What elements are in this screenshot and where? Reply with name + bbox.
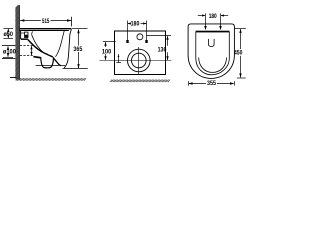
dim 355 (188, 81, 234, 85)
svg-text:355: 355 (207, 80, 216, 87)
dim 365 (63, 29, 88, 69)
inlet box (21, 32, 28, 37)
extension lines to bolts (128, 26, 147, 41)
outlet pipe thick (33, 57, 40, 58)
tank frame rect (115, 31, 166, 75)
dim 180 (middle) (128, 21, 147, 27)
bowl underside (back slope, thick) (28, 40, 53, 57)
bowl rim inner arc (199, 58, 227, 73)
cistern top thick bar (196, 31, 230, 33)
front profile inner (55, 31, 64, 57)
centerline mark left of drain (116, 54, 121, 63)
svg-text:180: 180 (131, 21, 140, 28)
dim o100 arrows (7, 46, 9, 57)
wall hatch (15, 4, 19, 83)
svg-text:180: 180 (209, 13, 217, 20)
ceramic back edge (20, 31, 22, 40)
bolt slot left (126, 40, 128, 43)
drain centerlines (100, 47, 172, 75)
trap U dip (41, 57, 54, 68)
seat slab (thick top) (20, 28, 72, 31)
bolt slot right (145, 40, 147, 43)
floor line left (10, 77, 17, 79)
o100 vertical arrows at pipe (30, 46, 32, 56)
svg-text:ø100: ø100 (3, 49, 16, 56)
dim 180 (top view) (198, 13, 228, 30)
bowl flat bottom (36, 64, 65, 66)
inner bowl back wall with hook (32, 32, 48, 55)
back bottom thick bar (21, 38, 28, 40)
svg-text:ø50: ø50 (3, 31, 13, 38)
dim o50 (4, 28, 14, 38)
svg-text:515: 515 (42, 18, 50, 25)
front profile outer (64, 29, 72, 68)
floor hatch middle (110, 80, 170, 83)
svg-text:450: 450 (234, 49, 243, 56)
dim 100 (103, 42, 116, 61)
o100 pipe through wall (2, 46, 15, 59)
pan outer outline (188, 24, 234, 79)
svg-text:136: 136 (158, 46, 167, 53)
svg-text:100: 100 (102, 48, 112, 55)
dim 450 (234, 29, 245, 79)
o100 hidden pipe dashed (20, 46, 33, 56)
drain outlet circles (128, 49, 151, 72)
svg-text:365: 365 (73, 46, 82, 53)
dim 136 (147, 36, 172, 61)
dim 515 (20, 17, 72, 27)
flush inlet circle (137, 34, 143, 40)
seat inner outline U (196, 32, 230, 75)
floor hatch left (16, 78, 86, 81)
bowl underside (front slope, thick) (54, 58, 61, 65)
flush distributor U (209, 39, 215, 47)
